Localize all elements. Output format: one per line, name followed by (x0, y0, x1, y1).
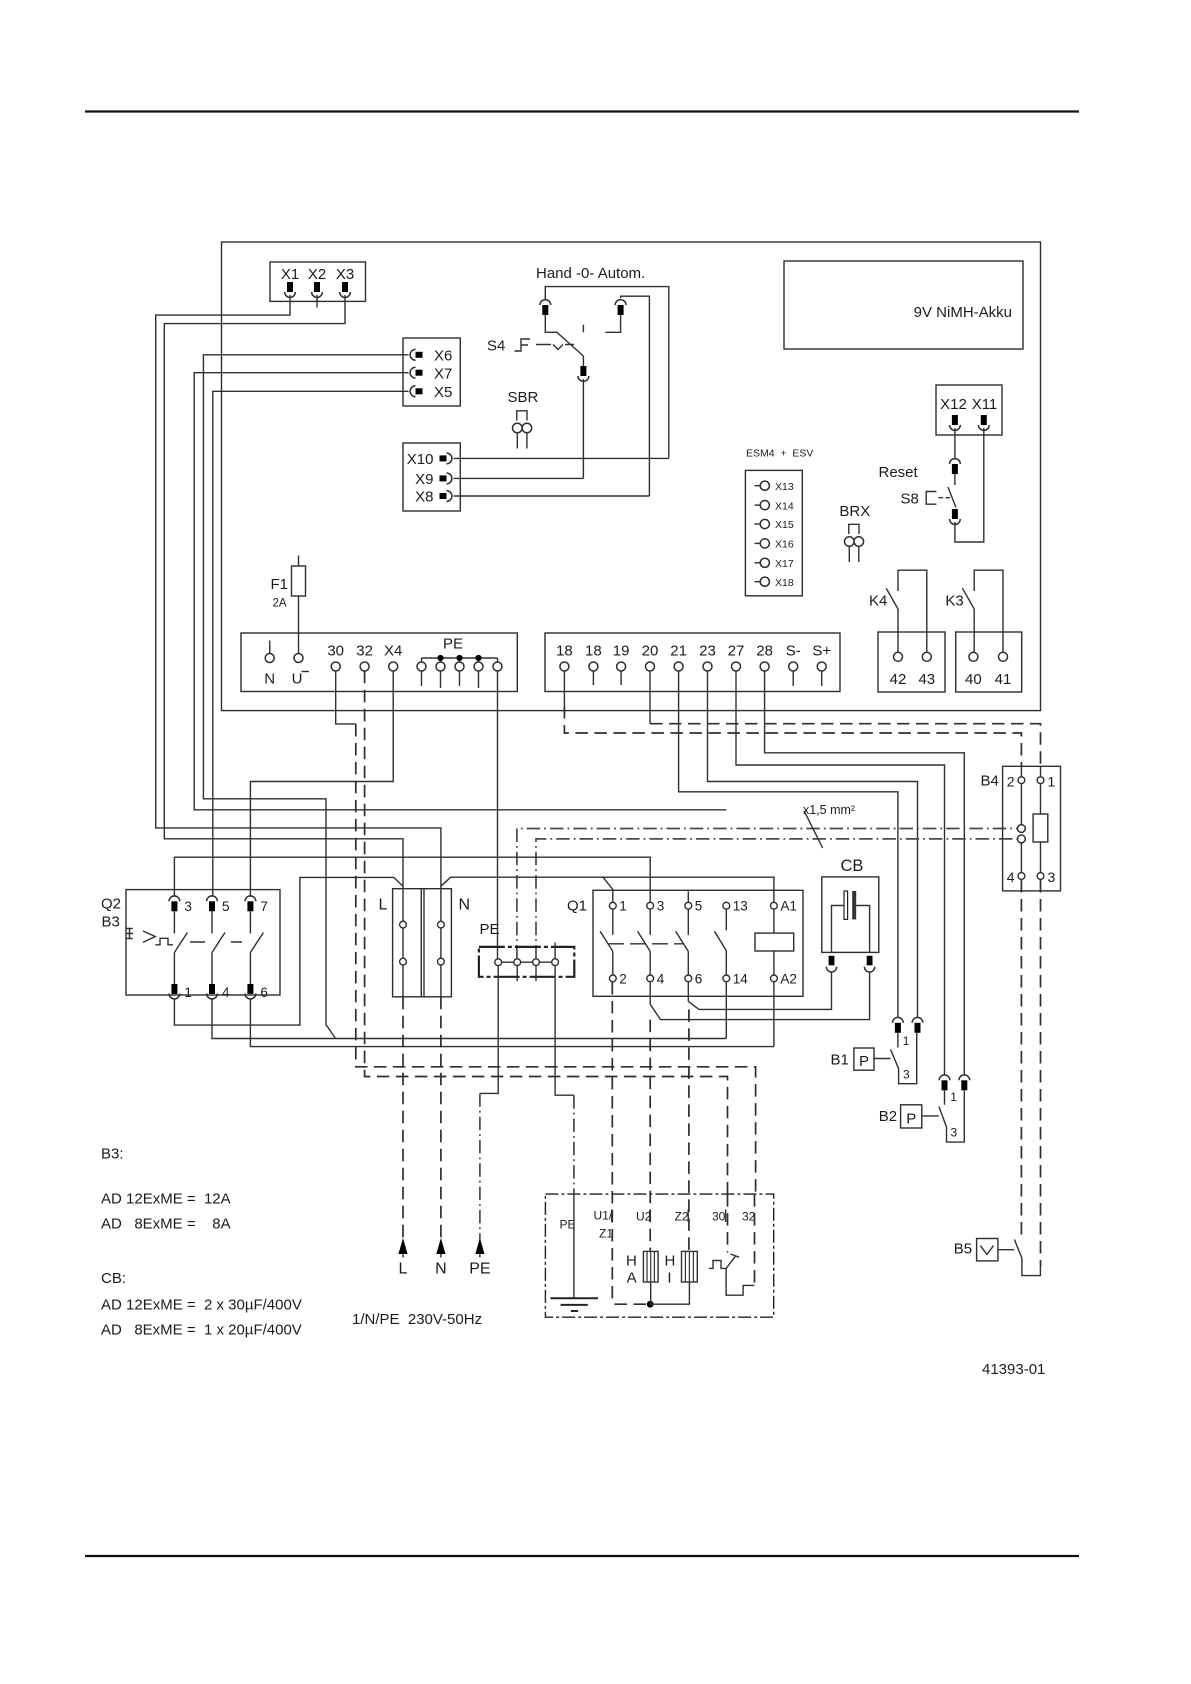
PE terminal 440.5 (436, 662, 445, 671)
pin X2 (312, 282, 323, 297)
svg-text:S+: S+ (812, 643, 831, 660)
B1 contact frame (899, 1033, 917, 1084)
svg-text:CB:: CB: (101, 1270, 126, 1287)
PE terminal tails (422, 671, 479, 688)
capacitor CB box (822, 877, 879, 953)
svg-text:Reset: Reset (879, 464, 919, 481)
pin X15 (755, 519, 794, 531)
terminal short tails 18b 19 S- S+ (593, 671, 821, 686)
wire motor PE down to ground (573, 1194, 575, 1298)
wire terminal 21 to B1 (679, 671, 898, 1018)
wire terminal 18 dashed to B4 pin2 (563, 671, 565, 706)
B2 pin 1 (939, 1075, 950, 1090)
svg-text:X9: X9 (415, 471, 433, 488)
wire CB right to Q1 pin4 (650, 972, 869, 1020)
svg-text:3: 3 (184, 899, 192, 914)
Q2 top pin 7 (245, 896, 256, 911)
Q2 top pin 3 (169, 896, 180, 911)
wire Q2 pin4 to Q1 pin14 (212, 999, 726, 1039)
B4 terminal 1 (1037, 774, 1055, 790)
terminal block 40 41 (956, 632, 1022, 692)
wire selector left contact lead (545, 315, 556, 332)
selector right contact lead (606, 315, 621, 332)
L N terminal box (393, 889, 452, 997)
wire Q2 pin1 to L input (174, 877, 403, 1025)
Q1 top terminal 5 (685, 902, 692, 909)
Q2 linkage dashes (190, 941, 242, 943)
svg-text:X14: X14 (775, 500, 794, 512)
PE terminal 421.5 (417, 662, 426, 671)
svg-text:X5: X5 (434, 384, 452, 401)
svg-text:S8: S8 (901, 491, 919, 508)
svg-text:19: 19 (613, 643, 630, 660)
svg-text:41393-01: 41393-01 (982, 1361, 1045, 1378)
pressure switch B1 (831, 1048, 891, 1070)
svg-text:B4: B4 (981, 773, 999, 790)
svg-text:X16: X16 (775, 539, 794, 551)
terminal 32 (356, 643, 373, 672)
svg-text:I: I (667, 1270, 671, 1287)
PE block terminal 517.2 (514, 959, 521, 966)
wire X7 to Q1 pin13 (194, 373, 726, 810)
svg-text:1: 1 (1048, 774, 1056, 790)
S4 manual actuator symbol (515, 339, 531, 351)
svg-text:S-: S- (786, 643, 801, 660)
Q2 bottom pin 4 (207, 984, 218, 999)
svg-text:1/N/PE 230V-50Hz: 1/N/PE 230V-50Hz (352, 1311, 482, 1328)
wire X5 to Q2 pin5 (213, 391, 409, 897)
svg-text:18: 18 (556, 643, 573, 660)
wire Q1 pin14 tail (725, 982, 727, 1039)
heater coil HA (626, 1251, 658, 1286)
PE block terminal 536.0 (533, 959, 540, 966)
svg-text:6: 6 (260, 985, 268, 1000)
wire HA bottom to node (650, 1282, 652, 1304)
connector block ESM4+ESV (745, 470, 802, 595)
svg-text:X18: X18 (775, 577, 794, 589)
B4 terminal 3 (1037, 869, 1055, 885)
svg-text:14: 14 (733, 972, 749, 987)
svg-text:PE: PE (560, 1218, 576, 1232)
svg-text:PE: PE (480, 921, 500, 938)
Q1 bottom terminal 6 (685, 975, 692, 982)
svg-text:13: 13 (733, 899, 748, 914)
pin X9 (440, 473, 452, 484)
svg-text:A2: A2 (780, 972, 797, 987)
svg-text:N: N (459, 897, 471, 914)
Q2 bottom pin 6 (245, 984, 256, 999)
B2 contact frame (947, 1091, 965, 1143)
terminal block 42 43 (878, 632, 945, 692)
terminal 23 at x=707.5 (699, 643, 716, 672)
svg-text:x1,5 mm²: x1,5 mm² (803, 803, 855, 817)
Q1 top terminal A1 (771, 902, 778, 909)
Q1 bottom terminal 14 (723, 975, 730, 982)
pin X3 (340, 282, 351, 297)
note B3 ratings (101, 1146, 231, 1233)
PE chain bus lower to B4 (536, 839, 1017, 959)
svg-text:Hand -0- Autom.: Hand -0- Autom. (536, 265, 645, 282)
svg-text:X17: X17 (775, 558, 794, 570)
svg-text:AD 12ExME = 12A: AD 12ExME = 12A (101, 1191, 231, 1208)
svg-text:4: 4 (1007, 869, 1015, 885)
Q1 pin5 stub (687, 891, 689, 902)
svg-text:X4: X4 (384, 643, 402, 660)
plug BRX bracket (849, 524, 859, 534)
connector block X6 X7 X5 (403, 338, 460, 406)
PE terminal 478.5 (474, 662, 483, 671)
S4 mechanical linkage dashes (536, 345, 574, 350)
wire 32 dashed run to motor (365, 671, 728, 1253)
Q2 thermal trip button symbol (126, 929, 133, 939)
terminal 18 at x=593.4 (585, 643, 602, 672)
Q1 top terminal 1 (609, 902, 616, 909)
svg-text:2: 2 (1007, 774, 1015, 790)
svg-text:20: 20 (642, 643, 659, 660)
pin X17 (755, 558, 794, 570)
motor terminal divider ticks (612, 1210, 726, 1223)
note CB ratings (101, 1270, 302, 1339)
level switch B5 (954, 1239, 1041, 1276)
pressure switch B2 (879, 1105, 939, 1128)
wire B4 pin3 dashed down to B5 (1040, 880, 1042, 1267)
svg-text:N: N (435, 1261, 447, 1278)
svg-text:4: 4 (657, 972, 665, 987)
svg-text:Z2: Z2 (675, 1210, 689, 1224)
connector block X1 X2 X3 (270, 262, 366, 301)
svg-text:U: U (292, 671, 303, 688)
B4 terminal 2 (1007, 774, 1025, 790)
svg-text:3: 3 (903, 1068, 910, 1082)
pin X6 (410, 349, 422, 360)
reset upper lead (954, 474, 956, 485)
wire L column (402, 886, 404, 997)
battery 9V NiMH-Akku box (784, 261, 1023, 349)
PE chain bus upper to B4 (517, 829, 1017, 959)
wire PE terminal to PE distribution block (497, 670, 499, 959)
wire terminal 23 to B1 (708, 671, 918, 1018)
ground symbol (550, 1298, 598, 1311)
svg-text:PE: PE (443, 636, 463, 653)
supply arrow N (435, 1238, 447, 1278)
svg-text:X8: X8 (415, 489, 433, 506)
Q2 trip arrow symbol (143, 931, 155, 942)
wire X9 to selector centre contact (454, 477, 584, 479)
svg-text:K3: K3 (945, 593, 963, 610)
B2 pin 3 (959, 1075, 970, 1090)
wire Q1 pin2 dashed to motor U1 (611, 982, 613, 1304)
svg-text:X10: X10 (407, 451, 434, 468)
B1 pin 1 (893, 1017, 904, 1032)
wire X4 to Q2 pin7 (250, 671, 393, 897)
wire CB left to Q1 pin6 (688, 972, 831, 1009)
Q1 auxiliary contact 13-14 (714, 909, 726, 975)
svg-text:9V NiMH-Akku: 9V NiMH-Akku (914, 304, 1012, 321)
connector block X10 X9 X8 (403, 443, 460, 511)
wire N column (440, 886, 442, 997)
page footer rule (85, 1555, 1079, 1557)
wire N feeder branch to Q1 pin1 and A1 (441, 876, 774, 902)
svg-text:3: 3 (1048, 869, 1056, 885)
svg-text:6: 6 (695, 972, 703, 987)
terminal 19 at x=621.1 (613, 643, 630, 672)
Q1 main pole contact (600, 909, 613, 975)
thermal contact in motor (709, 1254, 755, 1295)
svg-text:28: 28 (756, 643, 773, 660)
terminal strip 18..S+ (545, 633, 840, 692)
Q2 pole 3-1 contact (174, 912, 187, 985)
wire L dashed to supply arrow (402, 997, 404, 1240)
svg-text:27: 27 (728, 643, 745, 660)
fuse holder B4 box (1003, 766, 1061, 891)
switch S8 blade (948, 487, 956, 508)
selector zero position mark (582, 325, 584, 333)
pin X7 (410, 367, 422, 378)
annotation x1,5 mm2 (803, 803, 855, 848)
svg-text:S4: S4 (487, 338, 505, 355)
CB right pin (864, 956, 874, 972)
svg-text:X12: X12 (940, 396, 967, 413)
svg-text:X15: X15 (775, 519, 794, 531)
supply arrow PE (469, 1238, 490, 1278)
svg-text:X2: X2 (308, 266, 326, 283)
connector block X12 X11 (936, 385, 1002, 435)
terminal U (292, 654, 309, 688)
svg-text:AD 8ExME = 1 x 20µF/400V: AD 8ExME = 1 x 20µF/400V (101, 1322, 302, 1339)
wire Q2 pin6 to Q1 A2 (250, 999, 774, 1047)
svg-text:40: 40 (965, 671, 982, 688)
PE block internal bus (498, 961, 555, 963)
svg-text:B1: B1 (831, 1052, 849, 1069)
switch S4 blade (556, 332, 583, 357)
pin X16 (755, 539, 794, 551)
svg-text:1: 1 (903, 1034, 910, 1048)
wire centre contact to X9 (582, 356, 584, 478)
Q2 bottom pin 1 (169, 984, 180, 999)
PE block terminal 498.2 (495, 959, 502, 966)
Q1 main pole contact (676, 909, 689, 975)
contactor Q1 box (593, 890, 803, 996)
svg-text:AD 12ExME = 2 x 30µF/400V: AD 12ExME = 2 x 30µF/400V (101, 1297, 302, 1314)
svg-text:2A: 2A (273, 598, 287, 610)
svg-text:X1: X1 (281, 266, 299, 283)
S8 pushbutton actuator symbol (926, 492, 936, 505)
Q1 bottom terminal A2 (771, 975, 778, 982)
wire B4 pin4 dashed down to B5 (1020, 880, 1022, 1238)
pin X10 (440, 453, 452, 464)
svg-text:N: N (264, 671, 275, 688)
svg-text:32: 32 (356, 643, 373, 660)
terminal N (264, 641, 275, 688)
wire X2 stub (316, 295, 318, 308)
capacitor plates (844, 891, 848, 919)
terminal 18 at x=564.4 (556, 643, 573, 672)
plug SBR pins (517, 433, 527, 449)
pin X14 (755, 500, 794, 512)
PE block terminal 555.1 (552, 959, 559, 966)
B2 contact blade (939, 1091, 947, 1128)
svg-text:18: 18 (585, 643, 602, 660)
svg-text:B5: B5 (954, 1241, 972, 1258)
reset switch lower contact (950, 509, 961, 524)
Q2 pole 7-6 contact (250, 912, 263, 985)
Q2 top pin 5 (207, 896, 218, 911)
terminal strip N U 30 32 X4 PE (241, 633, 517, 692)
S8 linkage dashes (939, 497, 951, 499)
Q1 bottom terminal 4 (647, 975, 654, 982)
pin X5 (410, 386, 422, 397)
motor protection switch Q2 B3 box (126, 890, 280, 995)
terminal 28 at x=764.6 (756, 643, 773, 672)
svg-text:K4: K4 (869, 593, 887, 610)
svg-text:B3: B3 (102, 914, 120, 931)
Q1 coil A1-A2 (755, 909, 794, 975)
svg-text:BRX: BRX (839, 503, 870, 520)
svg-text:P: P (859, 1053, 869, 1070)
control unit enclosure box (222, 242, 1041, 711)
terminal 20 at x=650.0 (642, 643, 659, 672)
svg-text:X3: X3 (336, 266, 354, 283)
terminal 21 at x=678.6 (670, 643, 687, 672)
PE block terminal stubs (517, 943, 555, 982)
wire Q2 pin3 to Q1 pin3 (174, 857, 650, 902)
wire PE block to motor PE (555, 966, 574, 1095)
B4 PE sockets (1018, 825, 1026, 833)
svg-text:Z1: Z1 (599, 1227, 613, 1241)
wire Q1 A2 tail (773, 982, 775, 1047)
PE terminal bus (422, 658, 498, 662)
wire right contact to X8 (621, 296, 650, 496)
svg-text:A: A (627, 1270, 637, 1287)
svg-text:5: 5 (222, 899, 230, 914)
L terminals (400, 921, 407, 928)
svg-text:32: 32 (742, 1210, 756, 1224)
wire Q1 pin6 dashed to HI coil (688, 1009, 690, 1251)
pin X13 (755, 481, 794, 493)
N terminals (438, 921, 445, 928)
B1 contact blade (891, 1033, 899, 1069)
plug BRX sockets (845, 537, 855, 547)
supply arrow L (398, 1238, 407, 1278)
wire terminal 28 to B2 (765, 671, 965, 1075)
svg-text:7: 7 (260, 899, 268, 914)
svg-text:Q2: Q2 (101, 896, 121, 913)
svg-text:H: H (665, 1253, 676, 1270)
fuse element in B4 (1033, 814, 1048, 842)
svg-text:42: 42 (890, 671, 907, 688)
svg-text:23: 23 (699, 643, 716, 660)
wire terminal 27 to B2 (736, 671, 945, 1075)
PE distribution block box (479, 947, 574, 977)
svg-text:30: 30 (712, 1210, 726, 1224)
wire X10 to selector common rail (454, 457, 669, 459)
svg-text:Q1: Q1 (567, 898, 587, 915)
svg-text:B3:: B3: (101, 1146, 124, 1163)
Q1 top terminal 13 (723, 902, 730, 909)
svg-text:X6: X6 (434, 348, 452, 365)
Q1 main pole contact (638, 909, 651, 975)
selector right contact (615, 300, 626, 315)
motor terminal box (chain line) (545, 1194, 773, 1317)
capacitor leads (832, 906, 870, 953)
pin X12 (950, 415, 961, 430)
svg-text:1: 1 (950, 1090, 957, 1104)
terminal S+ at x=821.7 (812, 643, 831, 672)
selector left contact (540, 300, 551, 315)
plug BRX pins (849, 546, 859, 562)
svg-text:A1: A1 (780, 899, 797, 914)
plug SBR bracket (517, 411, 527, 421)
wire X3 to L feeder (164, 295, 403, 886)
svg-text:1: 1 (619, 899, 627, 914)
CB left pin (826, 956, 836, 972)
B4 internal wires (1021, 784, 1040, 873)
motor star point node (647, 1301, 654, 1308)
relay contact K4 (869, 570, 927, 653)
terminal 27 at x=736.0 (728, 643, 745, 672)
wire S8 to X11 (955, 428, 984, 542)
wire 30 dashed run to motor (356, 724, 756, 1286)
svg-text:H: H (626, 1253, 637, 1270)
wire node to U1 dashed (612, 1303, 646, 1305)
terminal 30 (327, 643, 344, 672)
wire PE block to PE supply arrow (480, 966, 498, 1094)
wire Q1 pin4 dashed to HA coil (649, 1020, 651, 1252)
selector centre contact (578, 366, 589, 381)
wire X8 to selector right contact (454, 495, 650, 497)
svg-text:L: L (379, 897, 388, 914)
svg-text:43: 43 (918, 671, 935, 688)
wire N dashed to supply arrow (440, 997, 442, 1240)
wire X12 to reset switch (954, 428, 956, 459)
PE terminal 497.5 (493, 662, 502, 671)
PE terminal 459.5 (455, 662, 464, 671)
Q1 bottom terminal 2 (609, 975, 616, 982)
Q2 pole 5-4 contact (212, 912, 225, 985)
svg-text:X11: X11 (972, 396, 998, 413)
svg-text:U1/: U1/ (594, 1209, 613, 1223)
svg-text:3: 3 (951, 1126, 958, 1140)
svg-text:41: 41 (995, 671, 1012, 688)
terminal S- at x=793.2 (786, 643, 801, 672)
svg-text:30: 30 (327, 643, 344, 660)
svg-text:CB: CB (841, 857, 864, 875)
svg-text:3: 3 (657, 899, 665, 914)
svg-text:X13: X13 (775, 481, 794, 493)
wire X6 to Q1 pin14 bus (203, 355, 408, 1039)
svg-text:P: P (906, 1111, 916, 1128)
svg-text:F1: F1 (271, 576, 289, 593)
svg-text:AD 8ExME = 8A: AD 8ExME = 8A (101, 1216, 231, 1233)
Q1 top terminal 3 (647, 902, 654, 909)
plug SBR sockets (513, 423, 523, 433)
svg-text:L: L (399, 1261, 408, 1278)
B1 pin 3 (912, 1017, 923, 1032)
terminal X4 (384, 643, 402, 672)
svg-text:1: 1 (184, 985, 192, 1000)
svg-text:4: 4 (222, 985, 230, 1000)
svg-text:B2: B2 (879, 1108, 897, 1125)
wire X1 to N feeder (156, 295, 441, 886)
svg-text:2: 2 (619, 972, 627, 987)
pin X1 (285, 282, 296, 297)
pin X8 (440, 491, 452, 502)
svg-text:X7: X7 (434, 365, 452, 382)
svg-text:ESM4 + ESV: ESM4 + ESV (746, 448, 813, 460)
svg-text:21: 21 (670, 643, 687, 660)
page header rule (85, 110, 1079, 112)
PE bus junction dots (437, 655, 443, 661)
